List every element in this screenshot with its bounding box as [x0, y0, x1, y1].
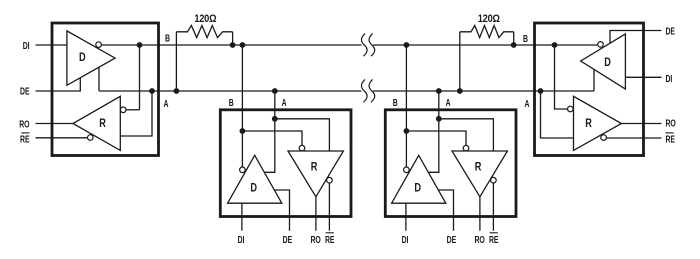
svg-text:D: D	[604, 57, 611, 69]
svg-text:RE: RE	[489, 234, 499, 246]
svg-text:A: A	[525, 97, 530, 109]
svg-text:DI: DI	[666, 73, 673, 85]
svg-text:D: D	[250, 183, 257, 195]
svg-text:B: B	[523, 33, 528, 45]
svg-text:DI: DI	[23, 39, 30, 51]
svg-text:RE: RE	[20, 133, 30, 145]
svg-text:A: A	[446, 97, 451, 109]
svg-text:R: R	[311, 162, 318, 174]
svg-text:120Ω: 120Ω	[194, 13, 216, 25]
svg-text:B: B	[229, 97, 234, 109]
svg-text:DE: DE	[20, 85, 30, 97]
svg-text:RE: RE	[666, 133, 676, 145]
svg-text:D: D	[79, 52, 86, 64]
svg-text:120Ω: 120Ω	[478, 13, 500, 25]
svg-text:RO: RO	[19, 118, 29, 130]
svg-text:DI: DI	[238, 234, 245, 246]
svg-text:DE: DE	[447, 234, 457, 246]
svg-text:R: R	[475, 162, 482, 174]
svg-text:R: R	[99, 118, 106, 130]
svg-text:B: B	[393, 97, 398, 109]
svg-text:RO: RO	[310, 234, 320, 246]
svg-text:D: D	[414, 183, 421, 195]
svg-text:B: B	[165, 32, 170, 44]
svg-text:DI: DI	[402, 234, 409, 246]
svg-text:RE: RE	[325, 234, 335, 246]
svg-text:RO: RO	[666, 117, 676, 129]
svg-text:A: A	[164, 97, 169, 109]
svg-text:A: A	[282, 97, 287, 109]
svg-text:RO: RO	[474, 234, 484, 246]
svg-text:DE: DE	[283, 234, 293, 246]
svg-text:R: R	[585, 118, 592, 130]
svg-text:DE: DE	[666, 25, 676, 37]
